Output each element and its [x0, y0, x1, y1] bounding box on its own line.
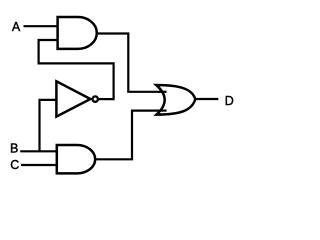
svg-text:D: D — [225, 94, 234, 108]
svg-text:C: C — [10, 158, 19, 172]
svg-text:A: A — [12, 20, 21, 34]
svg-text:B: B — [10, 142, 18, 156]
